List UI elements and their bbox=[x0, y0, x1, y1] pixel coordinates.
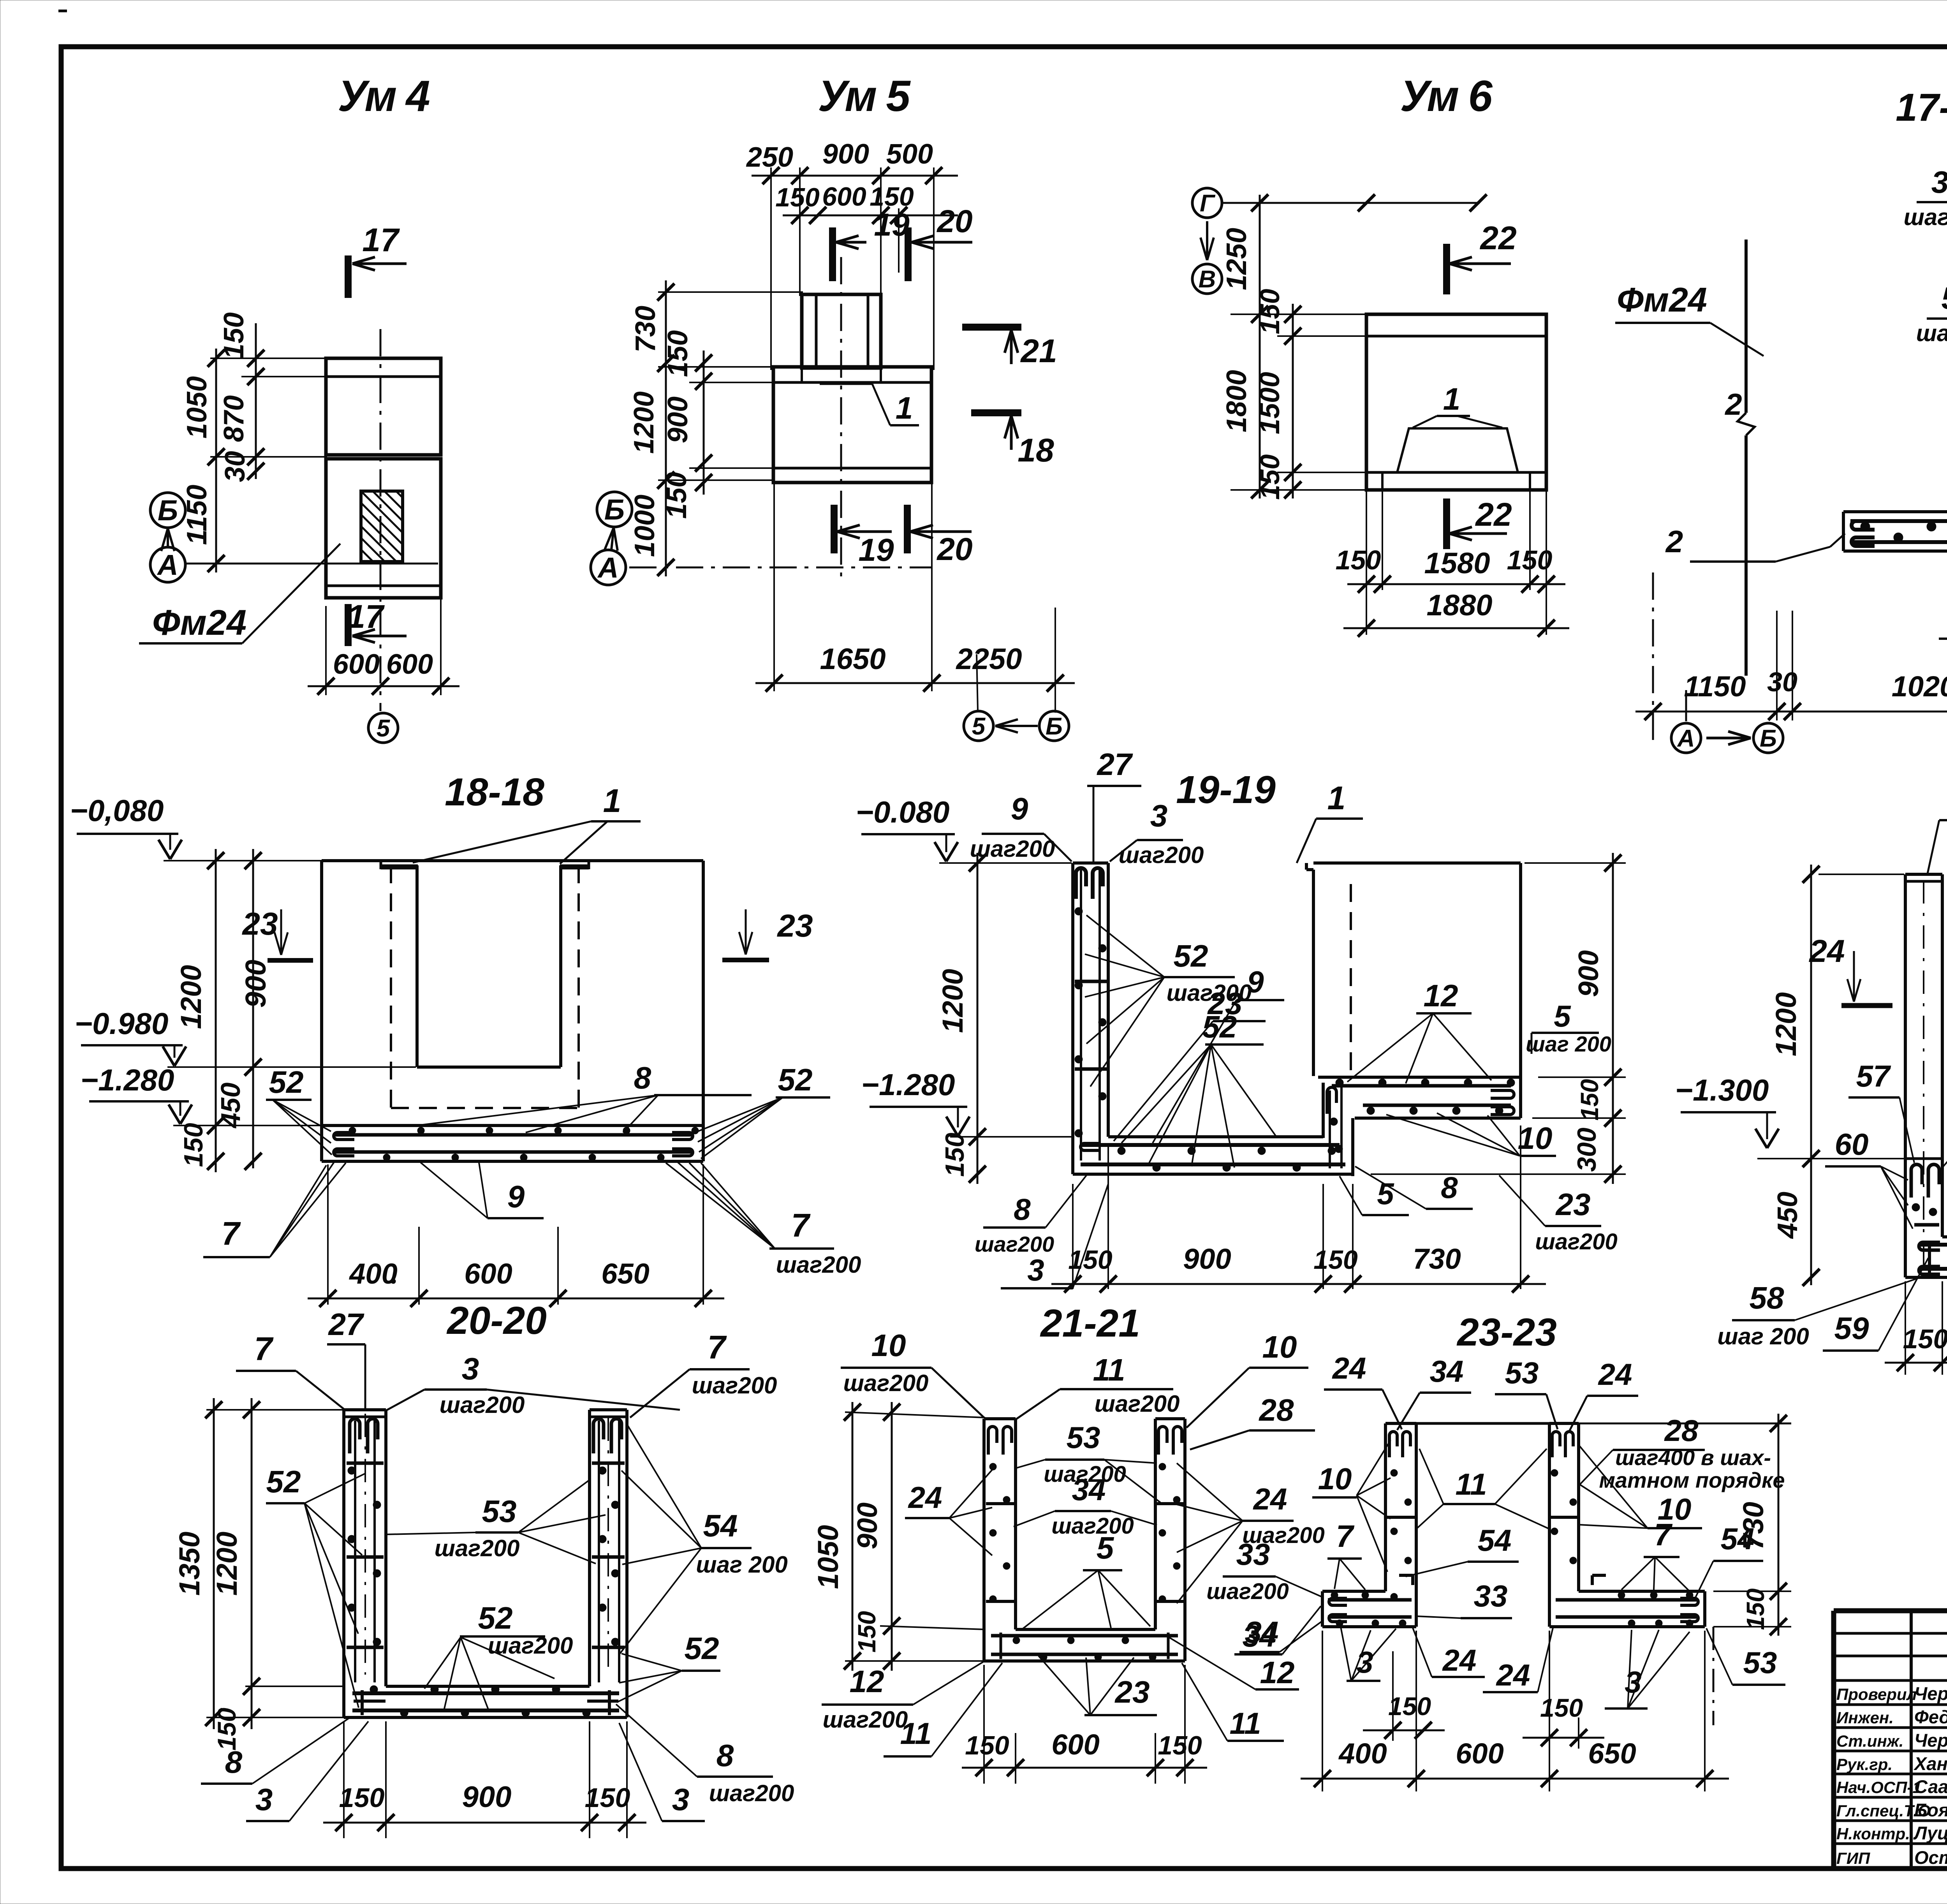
21-21 slab rebar bbox=[991, 1634, 1178, 1638]
Um5 column rectangle on plan bbox=[802, 294, 881, 368]
svg-text:150: 150 bbox=[775, 183, 820, 212]
22-22 slab outline bbox=[1942, 1235, 1947, 1238]
23-23 right foot slab bbox=[1579, 1590, 1705, 1593]
svg-text:−1.280: −1.280 bbox=[861, 1067, 955, 1102]
21-21 right wall dots and ties bbox=[1159, 1463, 1166, 1470]
19-19 upper slab rebar bbox=[1332, 1084, 1511, 1088]
17-17 base slab outline bbox=[1843, 510, 1947, 513]
svg-text:шаг200: шаг200 bbox=[843, 1370, 929, 1396]
svg-text:А: А bbox=[157, 549, 178, 581]
svg-text:57: 57 bbox=[1856, 1059, 1891, 1093]
19-19 upper slab outline bbox=[1318, 1076, 1521, 1079]
svg-text:52: 52 bbox=[685, 1631, 719, 1666]
Um4 axis A horizontal line bbox=[185, 563, 438, 565]
Um6 top reference line from axis G bbox=[1223, 202, 1480, 204]
svg-text:8: 8 bbox=[634, 1060, 651, 1095]
svg-text:450: 450 bbox=[1772, 1192, 1803, 1239]
svg-text:24: 24 bbox=[1598, 1357, 1632, 1391]
svg-text:Г: Г bbox=[1200, 190, 1216, 217]
svg-text:52: 52 bbox=[269, 1065, 304, 1099]
Um6 left dimension line 1250/1800 bbox=[1259, 195, 1261, 498]
21-21 left wall outline bbox=[984, 1417, 1016, 1420]
23-23 left wall outline bbox=[1385, 1422, 1416, 1425]
23-23 right wall hooks bbox=[1552, 1432, 1560, 1457]
svg-text:450: 450 bbox=[215, 1083, 246, 1129]
20-20 slab outline bbox=[386, 1685, 590, 1688]
Um5 bottom dimension 1650 2250 bbox=[773, 483, 775, 691]
svg-text:шаг 200: шаг 200 bbox=[696, 1552, 788, 1578]
svg-text:шаг200: шаг200 bbox=[435, 1535, 520, 1561]
svg-text:730: 730 bbox=[630, 306, 661, 352]
svg-text:600: 600 bbox=[333, 649, 380, 680]
svg-text:34: 34 bbox=[1072, 1472, 1106, 1507]
22-22 section markers 24 bbox=[1853, 951, 1855, 1002]
20-20 right wall dots bbox=[599, 1467, 606, 1474]
22-22 left foot rebar hooks bbox=[1911, 1164, 1922, 1198]
svg-text:Федотова: Федотова bbox=[1914, 1707, 1947, 1727]
svg-text:1020: 1020 bbox=[1892, 670, 1947, 703]
svg-text:10: 10 bbox=[1262, 1330, 1297, 1364]
20-20 right wall hooks top bbox=[593, 1419, 604, 1453]
19-19 step rebar hook bbox=[1327, 1087, 1336, 1114]
Um5 arrow B to 5 bbox=[995, 725, 1038, 727]
svg-text:5: 5 bbox=[1097, 1531, 1114, 1565]
svg-text:24: 24 bbox=[1442, 1643, 1477, 1677]
svg-text:1250: 1250 bbox=[1221, 228, 1252, 290]
18-18 left dimension lines 1200 900 450 150 bbox=[215, 849, 217, 1172]
svg-text:3: 3 bbox=[462, 1351, 479, 1386]
svg-text:2: 2 bbox=[1724, 387, 1742, 421]
svg-text:19: 19 bbox=[858, 532, 894, 568]
Um5 grid circle 5 bottom bbox=[964, 711, 993, 741]
svg-text:150: 150 bbox=[1507, 545, 1553, 575]
19-19 left wall outline bbox=[1073, 861, 1108, 865]
svg-text:1150: 1150 bbox=[181, 485, 213, 545]
Um5 base rectangle bbox=[773, 367, 931, 483]
svg-text:шаг200: шаг200 bbox=[1904, 204, 1947, 230]
svg-text:А: А bbox=[597, 551, 618, 584]
svg-text:шаг200: шаг200 bbox=[709, 1780, 794, 1806]
svg-text:150: 150 bbox=[1068, 1245, 1113, 1275]
svg-text:900: 900 bbox=[1183, 1243, 1231, 1275]
Um4 bottom dimension 600 600 bbox=[325, 606, 327, 695]
Um5 extension lines left side bbox=[658, 291, 803, 293]
svg-text:шаг200: шаг200 bbox=[1119, 842, 1204, 868]
20-20 bottom dimension 150 900 150 bbox=[343, 1721, 345, 1838]
23-23 top connecting line bbox=[1416, 1422, 1549, 1425]
svg-text:52: 52 bbox=[778, 1062, 813, 1097]
svg-text:53: 53 bbox=[1067, 1420, 1100, 1455]
svg-text:730: 730 bbox=[1737, 1502, 1769, 1550]
svg-text:Ум 6: Ум 6 bbox=[1400, 72, 1493, 120]
Um4 left dimension line 1050/1150 bbox=[215, 349, 217, 572]
Um4 lower rectangle outline bbox=[326, 459, 441, 598]
svg-text:9: 9 bbox=[1247, 965, 1264, 999]
svg-text:53: 53 bbox=[1505, 1356, 1539, 1390]
svg-text:20: 20 bbox=[936, 532, 972, 567]
19-19 left dimension lines bbox=[977, 853, 979, 1184]
svg-text:−0,080: −0,080 bbox=[70, 793, 164, 828]
svg-text:Саакьянц: Саакьянц bbox=[1914, 1776, 1947, 1797]
svg-text:600: 600 bbox=[1051, 1728, 1099, 1761]
svg-text:60: 60 bbox=[1835, 1127, 1869, 1161]
svg-text:870: 870 bbox=[218, 395, 250, 442]
main title block outer frame bbox=[1834, 1611, 1947, 1869]
Um4 hatched column rectangle bbox=[361, 491, 403, 562]
svg-text:Чернявская: Чернявская bbox=[1914, 1683, 1947, 1704]
20-20 left dimension lines 1350 1200 150 bbox=[213, 1398, 215, 1729]
svg-text:52: 52 bbox=[478, 1601, 513, 1635]
Um5 axis A dash-dot line bbox=[629, 567, 931, 569]
20-20 left wall outline bbox=[344, 1408, 386, 1411]
svg-text:1000: 1000 bbox=[629, 495, 660, 557]
svg-text:шаг200: шаг200 bbox=[1916, 320, 1947, 346]
Um5 section marker 21 right bbox=[962, 324, 1021, 331]
svg-text:Ум 4: Ум 4 bbox=[338, 72, 430, 120]
svg-text:59: 59 bbox=[1834, 1311, 1869, 1346]
23-23 right foot dots bbox=[1618, 1592, 1625, 1599]
svg-text:8: 8 bbox=[716, 1738, 734, 1773]
svg-text:19-19: 19-19 bbox=[1176, 768, 1276, 812]
svg-text:300: 300 bbox=[1572, 1127, 1602, 1172]
svg-text:Б: Б bbox=[158, 494, 178, 527]
Um6 bottom dimension 150 1580 150 bbox=[1366, 490, 1367, 635]
svg-text:400: 400 bbox=[1338, 1737, 1387, 1770]
Um4 left dimension line 150/870/30 bbox=[255, 323, 257, 479]
Um6 section marker 22 bottom bbox=[1443, 498, 1450, 549]
svg-text:33: 33 bbox=[1236, 1537, 1270, 1571]
svg-text:Б: Б bbox=[604, 493, 625, 526]
svg-text:шаг200: шаг200 bbox=[823, 1707, 908, 1733]
Um4 axis circle A bbox=[150, 547, 185, 582]
22-22 slab corner hooks bbox=[1928, 1241, 1931, 1273]
23-23 right foot rebar bbox=[1556, 1598, 1698, 1602]
Um6 extension lines left bbox=[1231, 314, 1368, 315]
svg-text:шаг200: шаг200 bbox=[1206, 1579, 1289, 1604]
20-20 left wall dots bbox=[348, 1467, 356, 1474]
svg-text:3: 3 bbox=[1931, 165, 1947, 199]
svg-text:10: 10 bbox=[1318, 1462, 1352, 1496]
svg-text:12: 12 bbox=[850, 1664, 884, 1699]
20-20 wall centerline dashes bbox=[364, 1414, 366, 1675]
svg-text:7: 7 bbox=[1336, 1519, 1355, 1553]
svg-text:11: 11 bbox=[1093, 1353, 1125, 1387]
svg-text:7: 7 bbox=[254, 1330, 274, 1367]
svg-text:5: 5 bbox=[972, 713, 986, 740]
23-23 right foot corner hook bbox=[1592, 1574, 1606, 1577]
svg-text:51: 51 bbox=[1942, 281, 1947, 315]
svg-text:3: 3 bbox=[1027, 1253, 1044, 1287]
Um6 axis circle V bbox=[1192, 264, 1222, 294]
svg-text:18-18: 18-18 bbox=[445, 770, 544, 814]
svg-text:1150: 1150 bbox=[1684, 670, 1746, 703]
22-22 left column centerline bbox=[1923, 880, 1924, 1273]
svg-text:12: 12 bbox=[1424, 978, 1458, 1013]
23-23 left foot rebar bbox=[1328, 1598, 1412, 1602]
svg-text:1580: 1580 bbox=[1424, 547, 1490, 580]
svg-text:900: 900 bbox=[822, 139, 869, 170]
svg-text:7: 7 bbox=[222, 1215, 241, 1252]
svg-text:150: 150 bbox=[853, 1611, 881, 1653]
svg-text:5: 5 bbox=[1554, 999, 1571, 1033]
svg-text:58: 58 bbox=[1750, 1280, 1784, 1315]
svg-text:20: 20 bbox=[936, 204, 972, 239]
23-23 left foot slab bbox=[1322, 1590, 1385, 1593]
17-17 bottom dimension 1150 30 1020 bbox=[1652, 572, 1654, 742]
svg-text:А: А bbox=[1677, 725, 1695, 752]
23-23 left foot corner hook bbox=[1399, 1574, 1413, 1577]
20-20 right wall rebar verticals bbox=[598, 1421, 600, 1682]
21-21 bottom dimension 150 600 150 bbox=[983, 1665, 985, 1784]
svg-text:17: 17 bbox=[362, 222, 400, 258]
18-18 embed plates at top bbox=[381, 865, 418, 870]
23-23 bottom dimension 400 600 650 bbox=[1322, 1631, 1323, 1791]
svg-text:650: 650 bbox=[601, 1258, 649, 1290]
18-18 outer wall edges bbox=[320, 861, 323, 1125]
svg-text:150: 150 bbox=[585, 1782, 630, 1813]
svg-text:150: 150 bbox=[212, 1708, 241, 1751]
svg-text:150: 150 bbox=[1313, 1245, 1358, 1275]
svg-text:150: 150 bbox=[661, 472, 692, 519]
18-18 slab rebar bars with hooks bbox=[334, 1133, 692, 1137]
svg-text:Чернявская: Чернявская bbox=[1914, 1730, 1947, 1751]
svg-text:Боярченко: Боярченко bbox=[1914, 1800, 1947, 1820]
Um5 left dimension line 150/900/150 bbox=[703, 351, 705, 495]
Um6 section marker 22 top bbox=[1443, 244, 1450, 294]
svg-text:7: 7 bbox=[791, 1207, 811, 1244]
svg-text:3: 3 bbox=[1150, 798, 1168, 833]
svg-text:21-21: 21-21 bbox=[1040, 1302, 1140, 1345]
svg-text:Инжен.: Инжен. bbox=[1836, 1708, 1894, 1727]
svg-text:900: 900 bbox=[239, 960, 272, 1007]
svg-text:−1.280: −1.280 bbox=[81, 1063, 174, 1097]
svg-text:24: 24 bbox=[1332, 1351, 1366, 1385]
svg-text:10: 10 bbox=[871, 1328, 906, 1363]
Um4 vertical centerline dash-dot bbox=[380, 329, 382, 711]
Um5 base hidden edge dashed behind column bbox=[818, 367, 868, 369]
Um4 grid circle 5 below bbox=[368, 713, 398, 743]
svg-text:Нач.ОСП-1: Нач.ОСП-1 bbox=[1836, 1778, 1922, 1797]
svg-text:900: 900 bbox=[1573, 950, 1604, 997]
svg-text:30: 30 bbox=[1767, 667, 1797, 697]
Um6 bottom band corner verticals bbox=[1381, 472, 1384, 490]
svg-text:Н.контр.: Н.контр. bbox=[1836, 1825, 1910, 1843]
19-19 wall rebar hooks top bbox=[1076, 868, 1086, 899]
23-23 top extension to dim line bbox=[1549, 1423, 1791, 1425]
17-17 slab rebar dots bbox=[1861, 522, 1870, 531]
svg-text:24: 24 bbox=[1496, 1658, 1530, 1692]
svg-text:шаг200: шаг200 bbox=[776, 1252, 861, 1278]
svg-text:27: 27 bbox=[1097, 747, 1133, 782]
Um4 arrow from A to B bbox=[167, 528, 169, 547]
svg-text:11: 11 bbox=[900, 1716, 932, 1751]
svg-text:1: 1 bbox=[603, 782, 621, 819]
Um4 section marker 17 bottom bbox=[345, 604, 352, 646]
svg-text:7: 7 bbox=[1654, 1517, 1673, 1552]
svg-text:23: 23 bbox=[241, 906, 278, 942]
svg-text:−0.080: −0.080 bbox=[856, 795, 950, 829]
svg-text:17: 17 bbox=[347, 598, 385, 635]
svg-text:Б: Б bbox=[1046, 713, 1063, 740]
svg-text:18: 18 bbox=[1018, 432, 1054, 469]
22-22 slab rebar bars bbox=[1920, 1243, 1947, 1247]
svg-text:1200: 1200 bbox=[937, 969, 969, 1033]
svg-text:150: 150 bbox=[1255, 454, 1285, 500]
19-19 right block right edge bbox=[1519, 863, 1522, 1118]
svg-text:22: 22 bbox=[1479, 220, 1516, 256]
svg-text:600: 600 bbox=[464, 1258, 512, 1290]
svg-text:12: 12 bbox=[1260, 1655, 1295, 1690]
18-18 slab rebar dots bbox=[349, 1127, 356, 1134]
small registration dash top left bbox=[58, 10, 67, 12]
19-19 right dimension lines 900 150 300 bbox=[1612, 853, 1614, 1184]
svg-text:Б: Б bbox=[1760, 725, 1777, 752]
svg-text:11: 11 bbox=[1456, 1467, 1487, 1501]
svg-text:27: 27 bbox=[328, 1307, 364, 1342]
19-19 bottom dimension 150 900 150 730 bbox=[1072, 1184, 1074, 1289]
Um5 grid circle B bottom bbox=[1039, 711, 1069, 741]
Um4 axis circle B bbox=[150, 493, 185, 528]
svg-text:23: 23 bbox=[776, 908, 813, 944]
22-22 left column base line bbox=[1905, 1157, 1942, 1160]
svg-text:150: 150 bbox=[1336, 545, 1381, 575]
svg-text:2250: 2250 bbox=[955, 643, 1022, 676]
Um6 top band line bbox=[1366, 335, 1546, 338]
svg-text:900: 900 bbox=[662, 396, 694, 443]
Um5 centerline vertical dash-dot bbox=[840, 257, 842, 584]
23-23 right wall dots and ties bbox=[1551, 1469, 1558, 1476]
svg-text:Фм24: Фм24 bbox=[1617, 280, 1707, 319]
19-19 right block top line with notch bbox=[1306, 868, 1313, 871]
20-20 left wall ties bbox=[347, 1462, 384, 1465]
svg-text:150: 150 bbox=[179, 1123, 208, 1167]
svg-text:150: 150 bbox=[965, 1731, 1009, 1760]
svg-text:−0.980: −0.980 bbox=[75, 1006, 169, 1041]
svg-text:Фм24: Фм24 bbox=[152, 603, 246, 643]
svg-text:33: 33 bbox=[1474, 1579, 1508, 1613]
Um4 extension lines left bbox=[210, 358, 327, 359]
svg-text:10: 10 bbox=[1518, 1121, 1553, 1155]
20-20 right wall ties bbox=[592, 1462, 625, 1465]
18-18 slab outline bbox=[322, 1124, 703, 1127]
svg-text:1200: 1200 bbox=[628, 391, 660, 454]
svg-text:150: 150 bbox=[1540, 1693, 1583, 1722]
svg-text:34: 34 bbox=[1430, 1354, 1464, 1388]
svg-text:шаг200: шаг200 bbox=[440, 1392, 525, 1418]
svg-text:2: 2 bbox=[1665, 524, 1683, 559]
svg-text:150: 150 bbox=[339, 1782, 385, 1813]
svg-text:Луценко: Луценко bbox=[1913, 1823, 1947, 1843]
Um5 section markers 19 20 top bbox=[829, 227, 836, 281]
svg-text:150: 150 bbox=[1158, 1731, 1202, 1760]
18-18 trench inner walls bbox=[415, 865, 419, 1067]
svg-text:Ум 5: Ум 5 bbox=[818, 72, 911, 120]
svg-text:20-20: 20-20 bbox=[446, 1299, 547, 1342]
19-19 bottom slab rebar bbox=[1081, 1143, 1340, 1147]
20-20 left wall rebar verticals bbox=[354, 1421, 356, 1682]
svg-text:8: 8 bbox=[1014, 1192, 1031, 1226]
svg-text:Рук.гр.: Рук.гр. bbox=[1836, 1755, 1892, 1774]
19-19 wall dots bbox=[1075, 907, 1083, 915]
Um5 section markers 19 20 bottom bbox=[831, 505, 838, 553]
svg-text:шаг200: шаг200 bbox=[1051, 1513, 1134, 1539]
21-21 left wall hooks bbox=[988, 1427, 997, 1455]
Um5 left dimension line 730/1200/1000 bbox=[665, 280, 667, 576]
Um6 bottom dimension 1880 bbox=[1343, 627, 1569, 629]
18-18 bottom dimension 400 600 650 bbox=[327, 1164, 329, 1305]
svg-text:−1.300: −1.300 bbox=[1675, 1073, 1769, 1107]
22-22 axis circles A B top left bbox=[1685, 690, 1687, 721]
Um6 axis circle G bbox=[1192, 188, 1222, 218]
svg-text:5: 5 bbox=[377, 715, 391, 742]
Um4 lower rectangle bottom band line bbox=[326, 585, 441, 587]
svg-text:1500: 1500 bbox=[1254, 372, 1285, 434]
svg-text:22: 22 bbox=[1475, 496, 1512, 533]
svg-text:1: 1 bbox=[1443, 382, 1461, 416]
19-19 wall tie marks bbox=[1075, 980, 1107, 983]
svg-text:52: 52 bbox=[1202, 1009, 1237, 1044]
svg-text:52: 52 bbox=[266, 1464, 301, 1499]
svg-text:650: 650 bbox=[1588, 1737, 1636, 1770]
svg-text:1650: 1650 bbox=[820, 643, 885, 676]
svg-text:1350: 1350 bbox=[173, 1532, 206, 1596]
svg-text:1200: 1200 bbox=[1770, 992, 1802, 1057]
svg-text:1: 1 bbox=[896, 391, 913, 425]
Um4 section marker 17 top bbox=[345, 255, 352, 298]
19-19 wall rebar verticals bbox=[1080, 869, 1082, 1161]
18-18 top surface line bbox=[322, 859, 703, 862]
svg-text:ГИП: ГИП bbox=[1836, 1849, 1870, 1867]
21-21 left wall dots and ties bbox=[989, 1463, 996, 1470]
svg-text:1200: 1200 bbox=[211, 1532, 243, 1596]
svg-text:28: 28 bbox=[1259, 1393, 1294, 1427]
svg-text:24: 24 bbox=[1253, 1482, 1287, 1516]
svg-text:Ханин: Ханин bbox=[1913, 1753, 1947, 1774]
21-21 slab dots bbox=[1013, 1637, 1020, 1644]
svg-text:150: 150 bbox=[940, 1133, 970, 1177]
svg-text:150: 150 bbox=[218, 312, 250, 359]
svg-text:17-17: 17-17 bbox=[1896, 86, 1947, 129]
22-22 left column outline bbox=[1905, 873, 1942, 876]
svg-text:9: 9 bbox=[1011, 791, 1028, 826]
20-20 left wall hooks top bbox=[350, 1419, 360, 1453]
svg-text:9: 9 bbox=[507, 1179, 525, 1214]
17-17 slab rebar bars bbox=[1850, 519, 1947, 523]
svg-text:1880: 1880 bbox=[1426, 589, 1492, 622]
svg-text:8: 8 bbox=[1441, 1170, 1458, 1205]
svg-text:Ст.инж.: Ст.инж. bbox=[1836, 1732, 1903, 1750]
svg-text:шаг 200: шаг 200 bbox=[1717, 1323, 1809, 1349]
svg-text:730: 730 bbox=[1413, 1243, 1461, 1275]
svg-text:150: 150 bbox=[1903, 1324, 1947, 1354]
23-23 left foot dots bbox=[1331, 1592, 1338, 1599]
svg-text:21: 21 bbox=[1020, 333, 1057, 369]
svg-text:600: 600 bbox=[386, 649, 433, 680]
svg-text:Проверил: Проверил bbox=[1836, 1685, 1917, 1703]
svg-text:8: 8 bbox=[225, 1745, 243, 1779]
svg-text:1050: 1050 bbox=[181, 376, 213, 439]
19-19 step wall between slabs bbox=[1322, 1083, 1325, 1138]
svg-text:1200: 1200 bbox=[175, 965, 207, 1029]
22-22 bottom dimension 150 1500 150 1250 bbox=[1905, 1281, 1906, 1375]
svg-text:150: 150 bbox=[1255, 289, 1285, 335]
Um4 upper rectangle outline bbox=[326, 358, 441, 455]
Um5 base bottom band line bbox=[773, 467, 931, 470]
svg-text:150: 150 bbox=[1741, 1589, 1769, 1630]
20-20 slab rebar bars bbox=[352, 1691, 619, 1695]
23-23 axis dash line right bbox=[1713, 1627, 1715, 1725]
Um5 arrow A to B bbox=[611, 528, 614, 550]
